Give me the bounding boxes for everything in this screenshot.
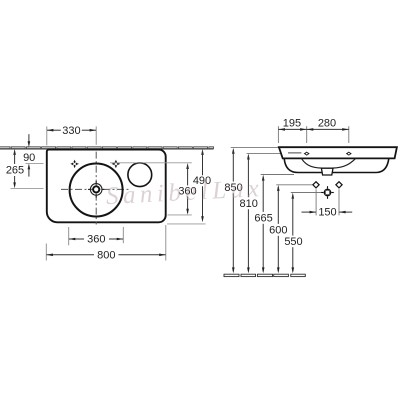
tap hole star right [112,160,121,169]
svg-text:330: 330 [62,125,80,137]
svg-text:90: 90 [23,152,35,164]
tick 490 bottom [167,223,206,225]
dimension 90 [23,134,43,176]
svg-text:265: 265 [6,165,24,177]
basin body under rim (front view) [284,158,389,172]
watermark [105,175,264,210]
extension line 550 [291,192,323,194]
drain fixing circle (front view) [321,186,334,199]
dimension 810 (front view) [240,154,258,274]
rim tap diamond right [346,152,352,156]
svg-text:360: 360 [87,234,105,246]
svg-text:800: 800 [97,249,115,261]
wall hatch strip (top view) [0,147,214,149]
extension line 665 [261,174,294,176]
bowl centerline vertical (dashed) [95,152,97,225]
svg-text:280: 280 [318,118,336,130]
svg-text:150: 150 [318,207,336,219]
drain symbol (top view) [88,181,104,197]
rim tap diamond left [304,152,310,156]
dimension 360 right (top view) [110,163,197,215]
dimension 330 [47,125,96,146]
fixing diamond left (front view) [313,182,319,188]
dimension 800 (top view) [46,225,166,261]
wall surface line (top view) [0,148,214,150]
extension line 600 [276,184,313,186]
svg-text:195: 195 [283,118,301,130]
dimension 490 (top view) [167,149,211,224]
basin outline (top view) [47,150,166,223]
svg-text:600: 600 [269,225,287,237]
bowl centerline horizontal (dashed) [61,188,131,190]
rim bar (front view) [279,147,397,158]
fixing diamond right (front view) [336,182,342,188]
tick 90 [26,163,44,165]
dimension 265 [6,149,44,189]
bowl circle [70,164,123,217]
extension line 850 (front view) [231,147,280,149]
floor hatch (front view) [224,274,305,276]
dimension 850 (front view) [224,148,242,274]
dimension 195/280 (front view) [278,118,348,143]
svg-text:550: 550 [284,236,302,248]
svg-text:665: 665 [254,213,272,225]
dimension 600 (front view) [269,185,287,274]
dimension 360 bottom (top view) [69,227,124,246]
inner bowl arc (front view) [302,159,356,169]
small bowl circle (top view) [128,163,152,187]
drain outlet (front view) [321,168,333,175]
dimension 150 (front view) [302,189,353,218]
tap hole star left [70,160,79,169]
dimension 665 (front view) [254,175,272,274]
dimension 550 (front view) [284,193,302,274]
rim inner line [288,152,301,154]
tick 265 [11,188,44,190]
extension line 810 [247,152,282,154]
